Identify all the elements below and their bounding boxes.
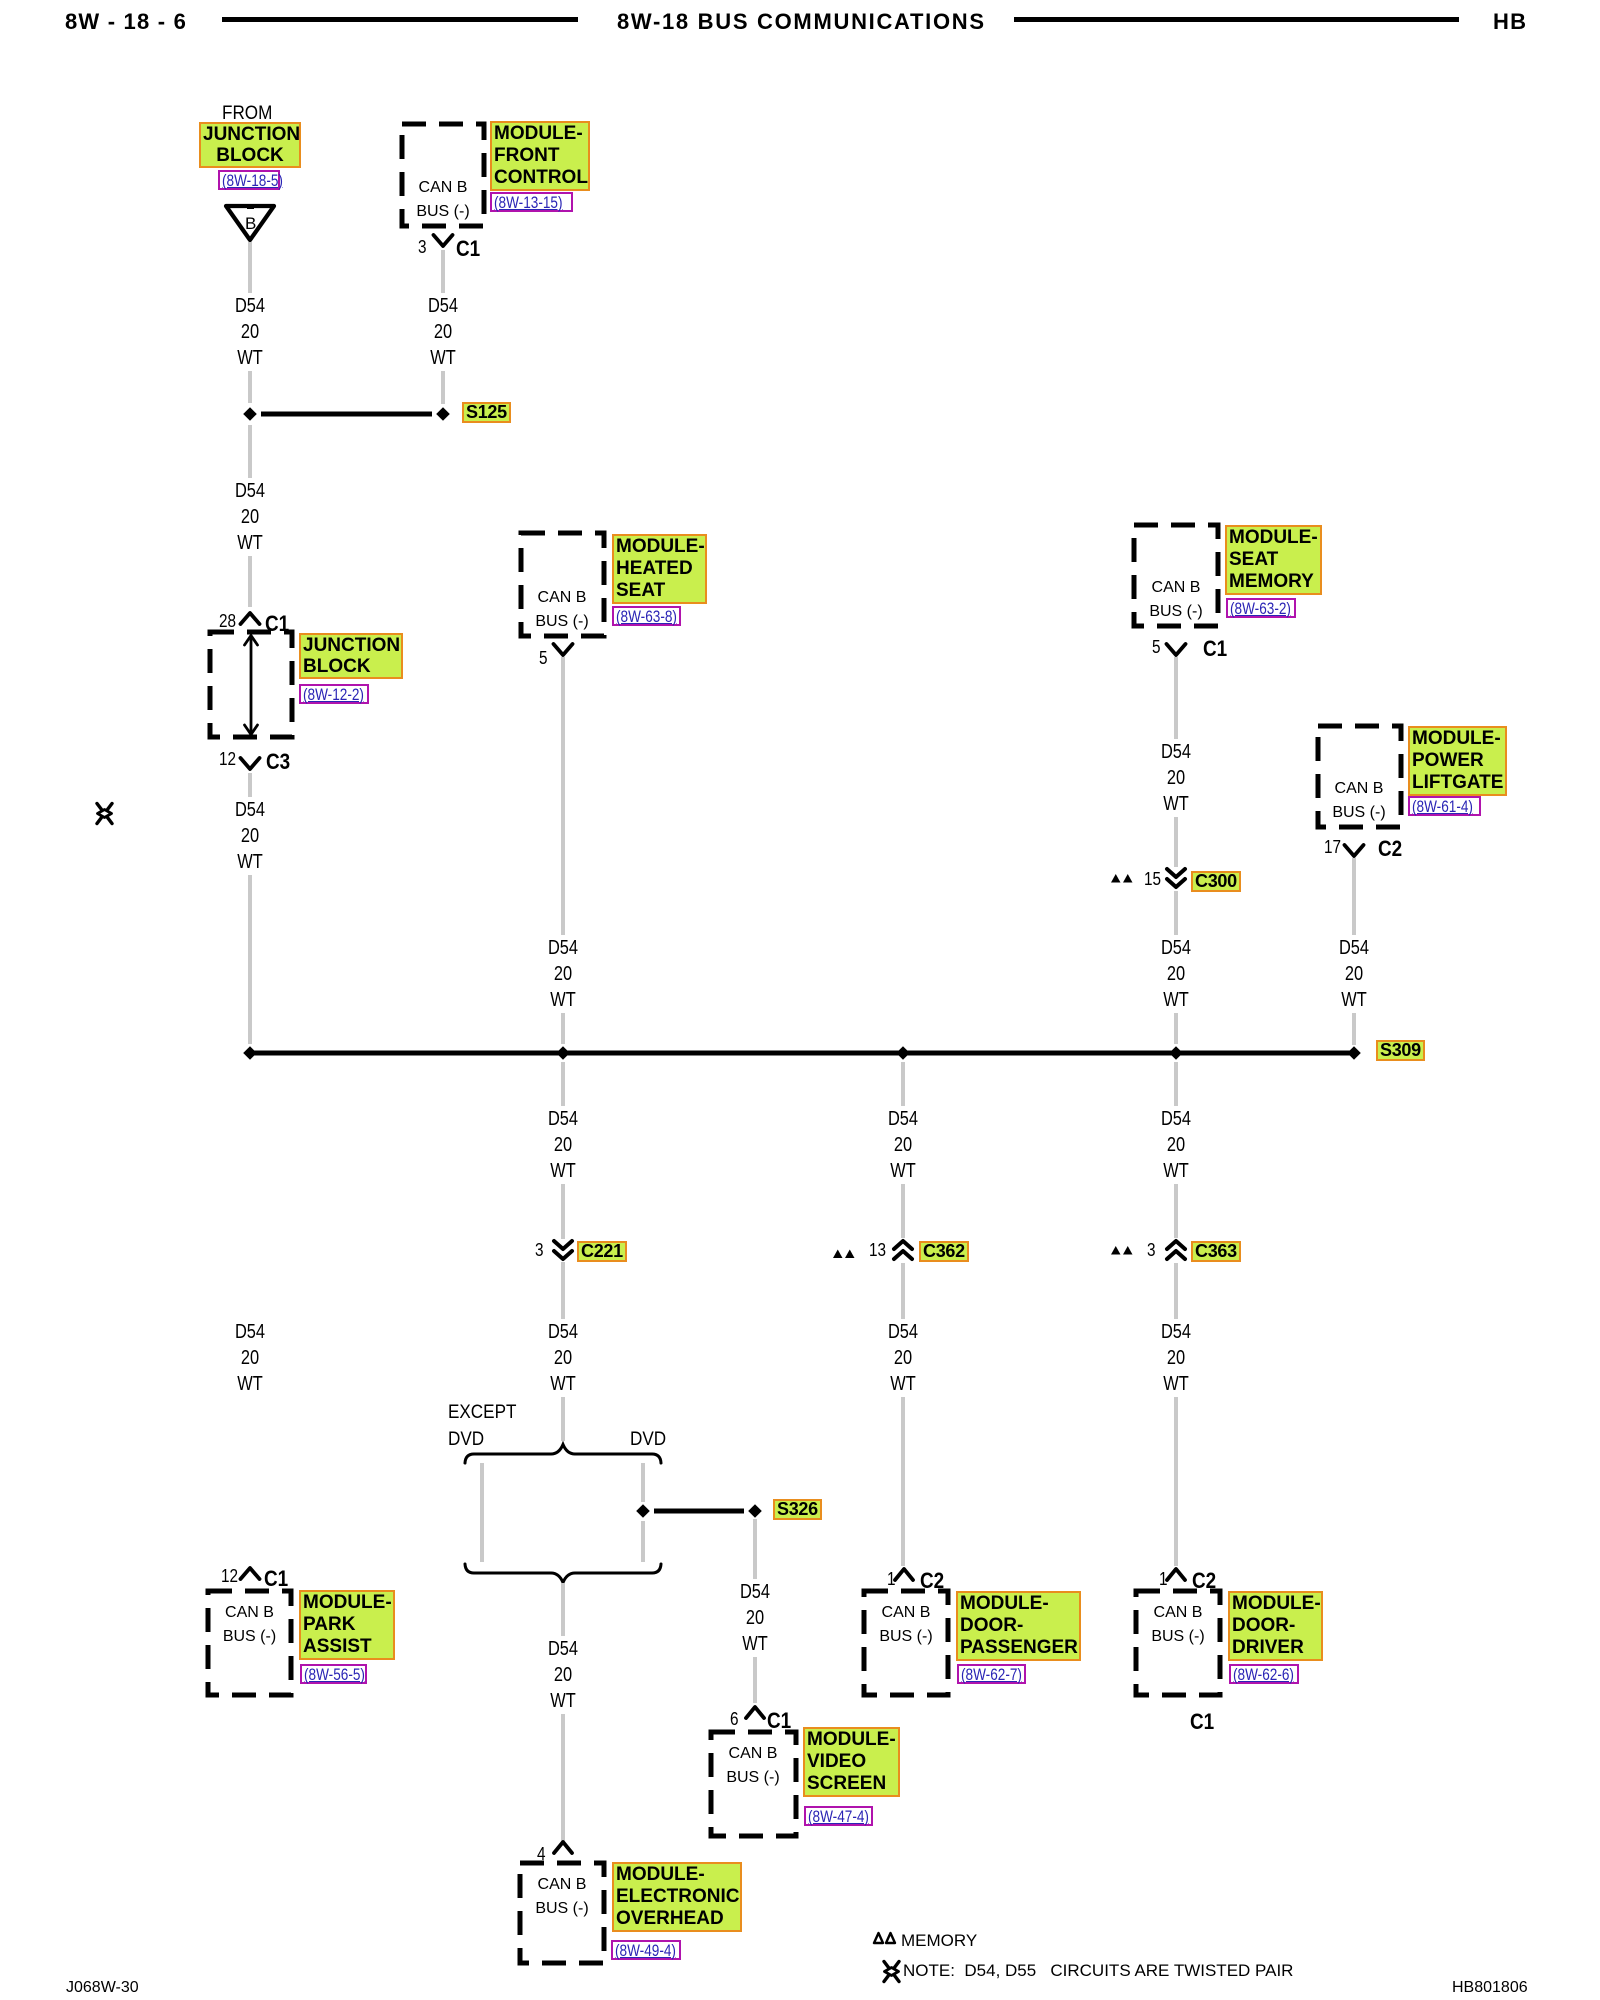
connector label C221 [577,1241,627,1262]
pin 12 junction block C3 [219,749,236,770]
splice label S326 [773,1499,822,1520]
label FROM [222,103,272,125]
wire col3 C221 to branch [561,1262,565,1441]
connector name C2 door passenger [920,1568,944,1594]
memory triangles at C362 [833,1250,855,1259]
module-power liftgate dashed box [1318,726,1401,827]
branch split brace (top) [465,1445,661,1464]
connector name C1 video screen [767,1708,791,1734]
connector label C362 [919,1241,969,1262]
link 8W-61-4 [1408,796,1481,816]
connector chevron C3 junction block [241,758,260,769]
wire label D54 20 WT col1 lower [224,797,276,875]
module-power liftgate label [1408,726,1507,796]
connector name C2 door driver [1192,1568,1216,1594]
wire col3 heated seat to S309 [561,657,565,1044]
junction block dashed box [210,632,292,737]
wire col2 C1 to S125 [441,250,445,404]
CAN B BUS (-) video screen [713,1742,793,1790]
module-heated seat dashed box [521,533,604,636]
junction block (mid) label [299,633,403,679]
wire label D54 20 WT col6 [1328,935,1380,1013]
link 8W-63-8 [612,606,681,626]
connector name C1 front control [456,236,480,262]
module-video screen dashed box [711,1732,796,1836]
connector chevron C1 video screen [746,1707,764,1718]
module-park assist label [299,1590,395,1660]
wire label D54 20 WT col5 upper [1150,739,1202,817]
wire col5 S309 to C363 [1174,1062,1178,1238]
header title 8W-18 BUS COMMUNICATIONS [617,9,986,35]
label DVD right [630,1429,666,1451]
wire label D54 20 WT col5 above bus [1150,935,1202,1013]
module-seat memory label [1225,525,1322,595]
label DVD left [448,1429,484,1451]
pin 5 seat memory C1 [1152,637,1161,658]
module-video screen label [803,1727,900,1797]
link 8W-18-5 [218,170,280,190]
header rule left [222,17,578,22]
junction dot S309 col4 [896,1046,910,1060]
wire label D54 20 WT col1 top [224,293,276,371]
legend MEMORY [901,1931,977,1951]
link 8W-56-5 [300,1664,367,1684]
wire branch right (dvd) upper [641,1463,645,1502]
connector chevron C1 seat memory [1167,644,1186,655]
pin 3 front control C1 [418,237,427,258]
splice S326 bus line [654,1509,744,1514]
pin 3 connector C363 [1147,1240,1156,1261]
link 8W-62-7 [957,1664,1026,1684]
pin 5 heated seat [539,648,548,669]
wire label D54 20 WT col1 mid [224,478,276,556]
connector chevron heated seat [554,644,573,655]
splice label S309 [1376,1040,1425,1061]
footer sheet number J068W-30 [66,1979,139,1997]
twisted pair note symbol left margin [97,804,112,824]
wire col4 C362 to door passenger [901,1263,905,1566]
pin 13 connector C362 [869,1240,886,1261]
memory legend triangles [874,1933,895,1943]
CAN B BUS (-) heated seat [522,586,602,634]
header code HB [1493,9,1527,35]
wire col5 C363 to door driver [1174,1263,1178,1566]
CAN B BUS (-) front control [403,176,483,224]
link 8W-47-4 [804,1806,873,1826]
twisted pair note symbol footer [884,1962,899,1982]
wire col1 triangle to S125 [248,242,252,403]
in-line connector C300 double chevron [1167,869,1185,887]
CAN B BUS (-) electronic overhead [522,1873,602,1921]
link 8W-63-2 [1226,598,1296,618]
connector name C1 junction block [265,611,289,637]
module-door-driver label [1228,1591,1323,1661]
pin 1 door driver C2 [1159,1569,1168,1590]
off-page connector triangle B [226,204,274,240]
wire label D54 20 WT col3 below bus [537,1106,589,1184]
wire label D54 20 WT col5 below bus [1150,1106,1202,1184]
CAN B BUS (-) seat memory [1136,576,1216,624]
module-door-driver dashed box [1136,1591,1220,1695]
link 8W-13-15 [490,192,573,212]
wire label D54 20 WT electronic overhead [537,1636,589,1714]
CAN B BUS (-) door passenger [866,1601,946,1649]
junction dot S326 left [636,1504,650,1518]
module-seat memory dashed box [1134,525,1218,626]
wire col5 seat memory to C300 [1174,657,1178,867]
splice label S125 [462,402,511,423]
junction dot S125 left [243,407,257,421]
in-line connector C363 double chevron [1167,1241,1185,1259]
wire label D54 20 WT col2 [417,293,469,371]
note twisted pair [903,1961,1293,1981]
module-electronic overhead label [612,1862,742,1932]
module-door-passenger dashed box [864,1591,948,1695]
link 8W-49-4 [611,1940,681,1960]
module-front control dashed box [402,124,484,226]
module-park assist dashed box [208,1591,291,1695]
memory triangles at C300 [1111,874,1133,883]
link 8W-62-6 [1229,1664,1299,1684]
connector name C1 below door driver [1190,1709,1214,1735]
wire col4 S309 to C362 [901,1062,905,1238]
junction block (top) label [199,122,301,168]
header page number 8W - 18 - 6 [65,9,187,35]
wire col5 C300 to S309 [1174,891,1178,1044]
connector name C1 seat memory [1203,636,1227,662]
wire branch right (dvd) lower [641,1521,645,1562]
connector chevron C2 door passenger [895,1569,913,1580]
pin 4 electronic overhead [537,1844,546,1865]
in-line connector C362 double chevron [894,1241,912,1259]
CAN B BUS (-) door driver [1138,1601,1218,1649]
connector chevron C1 front control [434,235,453,246]
pin 15 connector C300 [1144,869,1161,890]
connector chevron C1 park assist [241,1568,260,1579]
wire label D54 20 WT col1 bottom [224,1319,276,1397]
junction dot S309 right end [1347,1046,1361,1060]
junction block internal arrow [245,636,258,735]
connector chevron C2 liftgate [1345,845,1364,856]
connector label C363 [1191,1241,1241,1262]
connector label C300 [1191,871,1241,892]
CAN B BUS (-) power liftgate [1319,777,1399,825]
pin 3 connector C221 [535,1240,544,1261]
junction dot S326 right [748,1504,762,1518]
in-line connector C221 double chevron [554,1241,572,1259]
pin 28 junction block C1 [219,611,236,632]
wire label D54 20 WT col3 above branch [537,1319,589,1397]
connector chevron electronic overhead [554,1842,572,1853]
connector name C3 junction block [266,749,290,775]
footer code HB801806 [1452,1979,1528,1997]
wire label D54 20 WT col3 above bus [537,935,589,1013]
junction dot S309 col1 [243,1046,257,1060]
wire label D54 20 WT col4 below bus [877,1106,929,1184]
splice S309 bus line [250,1051,1354,1056]
memory triangles at C363 [1111,1246,1133,1255]
pin 17 liftgate C2 [1324,837,1341,858]
module-heated seat label [612,534,707,604]
pin 6 video screen C1 [730,1709,739,1730]
wire col1 C3 to S309 [248,773,252,1044]
junction dot S125 right [436,407,450,421]
wire col3 S309 to C221 [561,1062,565,1239]
wire S326 to video screen [753,1519,757,1703]
branch merge brace (bottom) [465,1564,661,1583]
header rule right [1014,17,1459,22]
label EXCEPT [448,1402,516,1424]
wire label D54 20 WT col5 bottom [1150,1319,1202,1397]
wire col1 S125 to C1 [248,425,252,607]
wire label D54 20 WT video screen [729,1579,781,1657]
link 8W-12-2 [299,684,369,704]
connector chevron C2 door driver [1167,1569,1185,1580]
wire label D54 20 WT col4 bottom [877,1319,929,1397]
triangle label B [245,214,256,234]
wire branch merge to electronic overhead [561,1583,565,1842]
module-electronic overhead dashed box [520,1863,604,1963]
module-door-passenger label [956,1591,1081,1661]
pin 12 park assist C1 [221,1566,238,1587]
CAN B BUS (-) park assist [210,1601,290,1649]
connector name C1 park assist [264,1566,288,1592]
junction dot S309 col5 [1169,1046,1183,1060]
junction dot S309 col3 [556,1046,570,1060]
module-front control label [490,121,590,191]
pin 1 door passenger C2 [887,1569,896,1590]
wire col6 liftgate to S309 [1352,858,1356,1045]
splice S125 bus line [261,412,432,417]
wire branch left (except dvd) [480,1463,484,1562]
connector name C2 liftgate [1378,836,1402,862]
connector chevron C1 junction block [241,613,260,624]
